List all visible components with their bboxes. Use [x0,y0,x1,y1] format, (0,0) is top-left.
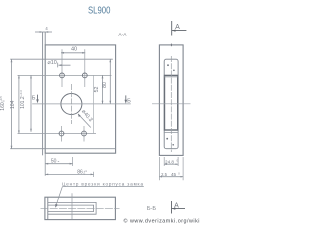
dim 50 extension [72,157,74,166]
dim 40 line [61,52,85,54]
dim 104 line [18,75,20,133]
section line B-B horizontal [32,103,131,105]
faceplate strip left line [42,32,44,155]
dim 4 right line [45,31,52,33]
right view: center dash line [170,56,172,152]
svg-text:45: 45 [171,172,177,177]
hole bottom-left [59,131,64,136]
svg-text:Б-Б: Б-Б [147,206,157,212]
faceplate strip right line above plate [44,32,46,45]
svg-text:A-A: A-A [118,32,127,38]
right view: slot [165,75,178,130]
center note shelf [62,186,143,188]
dim 80 line [109,59,111,104]
dim 40 arrows [61,52,85,54]
svg-text:50: 50 [51,159,57,165]
bottom view: lock body band [48,205,94,211]
hole bottom-right [82,131,87,136]
faceplate strip right line below plate [44,153,46,176]
svg-text:⌀10: ⌀10 [48,60,57,66]
dim 24.8 extensions [164,157,178,166]
dim 52 line [102,75,104,103]
svg-text:2.5: 2.5 [161,172,167,177]
dim 4 left line [35,31,43,33]
hole top-left [60,73,65,78]
bottom view: faceplate bar line [47,197,49,219]
cylinder circle [61,94,82,115]
faceplate top edge line [10,58,113,60]
bottom view: cylinder axis line [71,193,73,219]
strip top tick [43,31,46,33]
right view: crossing centerline [152,103,191,105]
svg-text:160: 160 [0,102,6,111]
section B left arrow [37,95,39,101]
dim 4 arrows [40,31,49,33]
dia10 leader [58,63,71,68]
right view: faceplate [164,59,178,149]
svg-text:A: A [174,203,179,210]
main view: door outline [45,45,115,153]
dim 45 line [159,176,183,178]
lock body right edge [93,75,95,133]
right view: door edge outline [159,45,183,155]
hole top-right [82,73,87,78]
dim 101.2 line [30,75,32,131]
cylinder vertical centerline [70,84,72,124]
svg-text:24.8: 24.8 [165,159,174,164]
section A top mark [172,21,187,36]
right view screw hole top1 [167,64,169,66]
svg-text:52: 52 [94,87,100,93]
section B right arrow [125,95,127,101]
svg-text:80: 80 [102,82,108,88]
dim 160 text [0,96,6,111]
svg-text:© www.dverizamki.org/wiki: © www.dverizamki.org/wiki [124,217,200,224]
dia40.3 leader [78,114,91,128]
svg-text:SL900: SL900 [88,5,111,16]
svg-text:104: 104 [10,100,16,109]
bottom view: door section outline [45,197,116,219]
right view screw hole bottom1 [166,138,168,140]
section A bottom mark [172,201,186,214]
center note leader [56,187,63,207]
top holes centerline [18,74,112,76]
bottom view: mortise band [48,202,96,214]
section A cut tick on top edge [170,44,172,47]
svg-text:40: 40 [71,47,77,53]
dim 45 extensions [159,157,183,180]
dim 101.2 text [19,90,26,109]
right view: slot inner edge lines [164,77,179,133]
svg-text:Б: Б [127,98,131,104]
svg-text:A: A [175,24,180,31]
svg-text:+0.3: +0.3 [19,90,23,96]
dim 86 line [45,173,93,175]
svg-text:101.2: 101.2 [20,96,26,109]
bottom holes centerline [18,133,97,135]
svg-text:Центр врезки корпуса замка: Центр врезки корпуса замка [62,181,143,186]
svg-text:Б: Б [32,95,36,101]
dim 86 extension [93,172,95,177]
svg-text:86: 86 [77,169,83,175]
hole vertical centerlines [62,49,85,141]
bottom view: horizontal centerline [41,207,120,209]
right view screw hole top2 [173,70,175,72]
dim 24.8 line [164,163,178,165]
faceplate bottom edge line [10,148,115,150]
right view screw hole bottom2 [172,144,174,146]
dim 160 line [11,59,13,149]
dim 50 line [45,163,72,165]
